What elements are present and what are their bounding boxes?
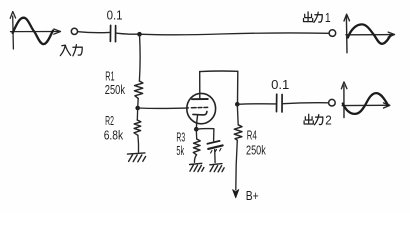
label 出力1 (output 1) (304, 12, 323, 23)
svg-text:0.1: 0.1 (271, 78, 289, 92)
ground symbol under R2 (127, 153, 145, 162)
svg-text:R3: R3 (176, 130, 185, 144)
wire cathode node to bypass capacitor (196, 129, 214, 141)
input sine wave (13, 18, 53, 44)
ground symbol under bypass capacitor (210, 164, 224, 172)
output2 sine wave (inverted) (343, 93, 388, 114)
wire C2 to output2 terminal (283, 102, 328, 105)
triode U1 envelope (187, 93, 216, 123)
output2 terminal (329, 99, 336, 106)
wire plate node to C2 (237, 103, 276, 106)
svg-text:5k: 5k (176, 144, 184, 158)
output2 waveform axes (341, 82, 389, 118)
wire R4 down to B+ (236, 140, 238, 190)
plate top wire to right (200, 70, 238, 73)
node A junction dot (137, 32, 142, 37)
svg-text:250k: 250k (246, 144, 266, 158)
resistor R2 zigzag (134, 120, 141, 135)
bypass capacitor C3 top plate (207, 141, 219, 144)
svg-text:R2: R2 (105, 114, 114, 128)
wire plate node down to R4 (236, 104, 239, 125)
cathode lead down (196, 115, 197, 129)
svg-text:0.1: 0.1 (107, 9, 123, 23)
bypass capacitor hatch ticks (211, 148, 221, 153)
input terminal (71, 28, 77, 34)
node B junction dot (135, 106, 140, 111)
label 入力 (input) (60, 45, 82, 56)
svg-text:2: 2 (325, 114, 332, 128)
wire node A to output1 terminal (140, 33, 329, 35)
cathode of U1 (193, 111, 207, 115)
plate node junction dot (235, 102, 240, 107)
wire cathode node to R3 (195, 129, 197, 139)
svg-text:1: 1 (325, 11, 331, 25)
input waveform icon axes (10, 12, 60, 50)
resistor R1 zigzag (134, 81, 143, 98)
label 出力2 (output 2) (304, 114, 323, 125)
capacitor C2 0.1 (276, 94, 278, 111)
B+ arrowhead (233, 190, 239, 198)
wire R3 to ground (194, 155, 196, 163)
output1 waveform axes (344, 14, 395, 53)
wire node B to tube grid (138, 107, 189, 110)
resistor R4 zigzag (234, 125, 242, 140)
svg-text:250k: 250k (105, 83, 126, 97)
wire bypass capacitor to ground (214, 150, 216, 163)
wire C1 to node A (117, 32, 138, 35)
wire node A down to R1 (138, 34, 141, 81)
bypass capacitor C3 bottom plate (208, 145, 222, 149)
wire R2 to ground (137, 135, 140, 152)
grid of U1 (dashed) (191, 106, 207, 108)
output1 sine wave (in phase) (348, 24, 391, 43)
cathode node junction dot (194, 127, 199, 132)
svg-text:6.8k: 6.8k (104, 128, 124, 142)
output1 terminal (329, 30, 336, 37)
svg-text:B+: B+ (246, 189, 259, 203)
svg-text:R1: R1 (105, 70, 114, 84)
wire down to plate node (237, 71, 239, 104)
wire node B down to R2 (136, 108, 138, 120)
capacitor C1 0.1 (109, 25, 111, 41)
ground symbol under R3 (190, 163, 204, 171)
resistor R3 zigzag (193, 139, 200, 155)
wire R1 to node B (137, 98, 140, 108)
wire input terminal to C1 (78, 31, 110, 34)
plate of U1 (192, 98, 208, 100)
plate lead up (199, 72, 201, 99)
svg-text:R4: R4 (247, 128, 257, 142)
